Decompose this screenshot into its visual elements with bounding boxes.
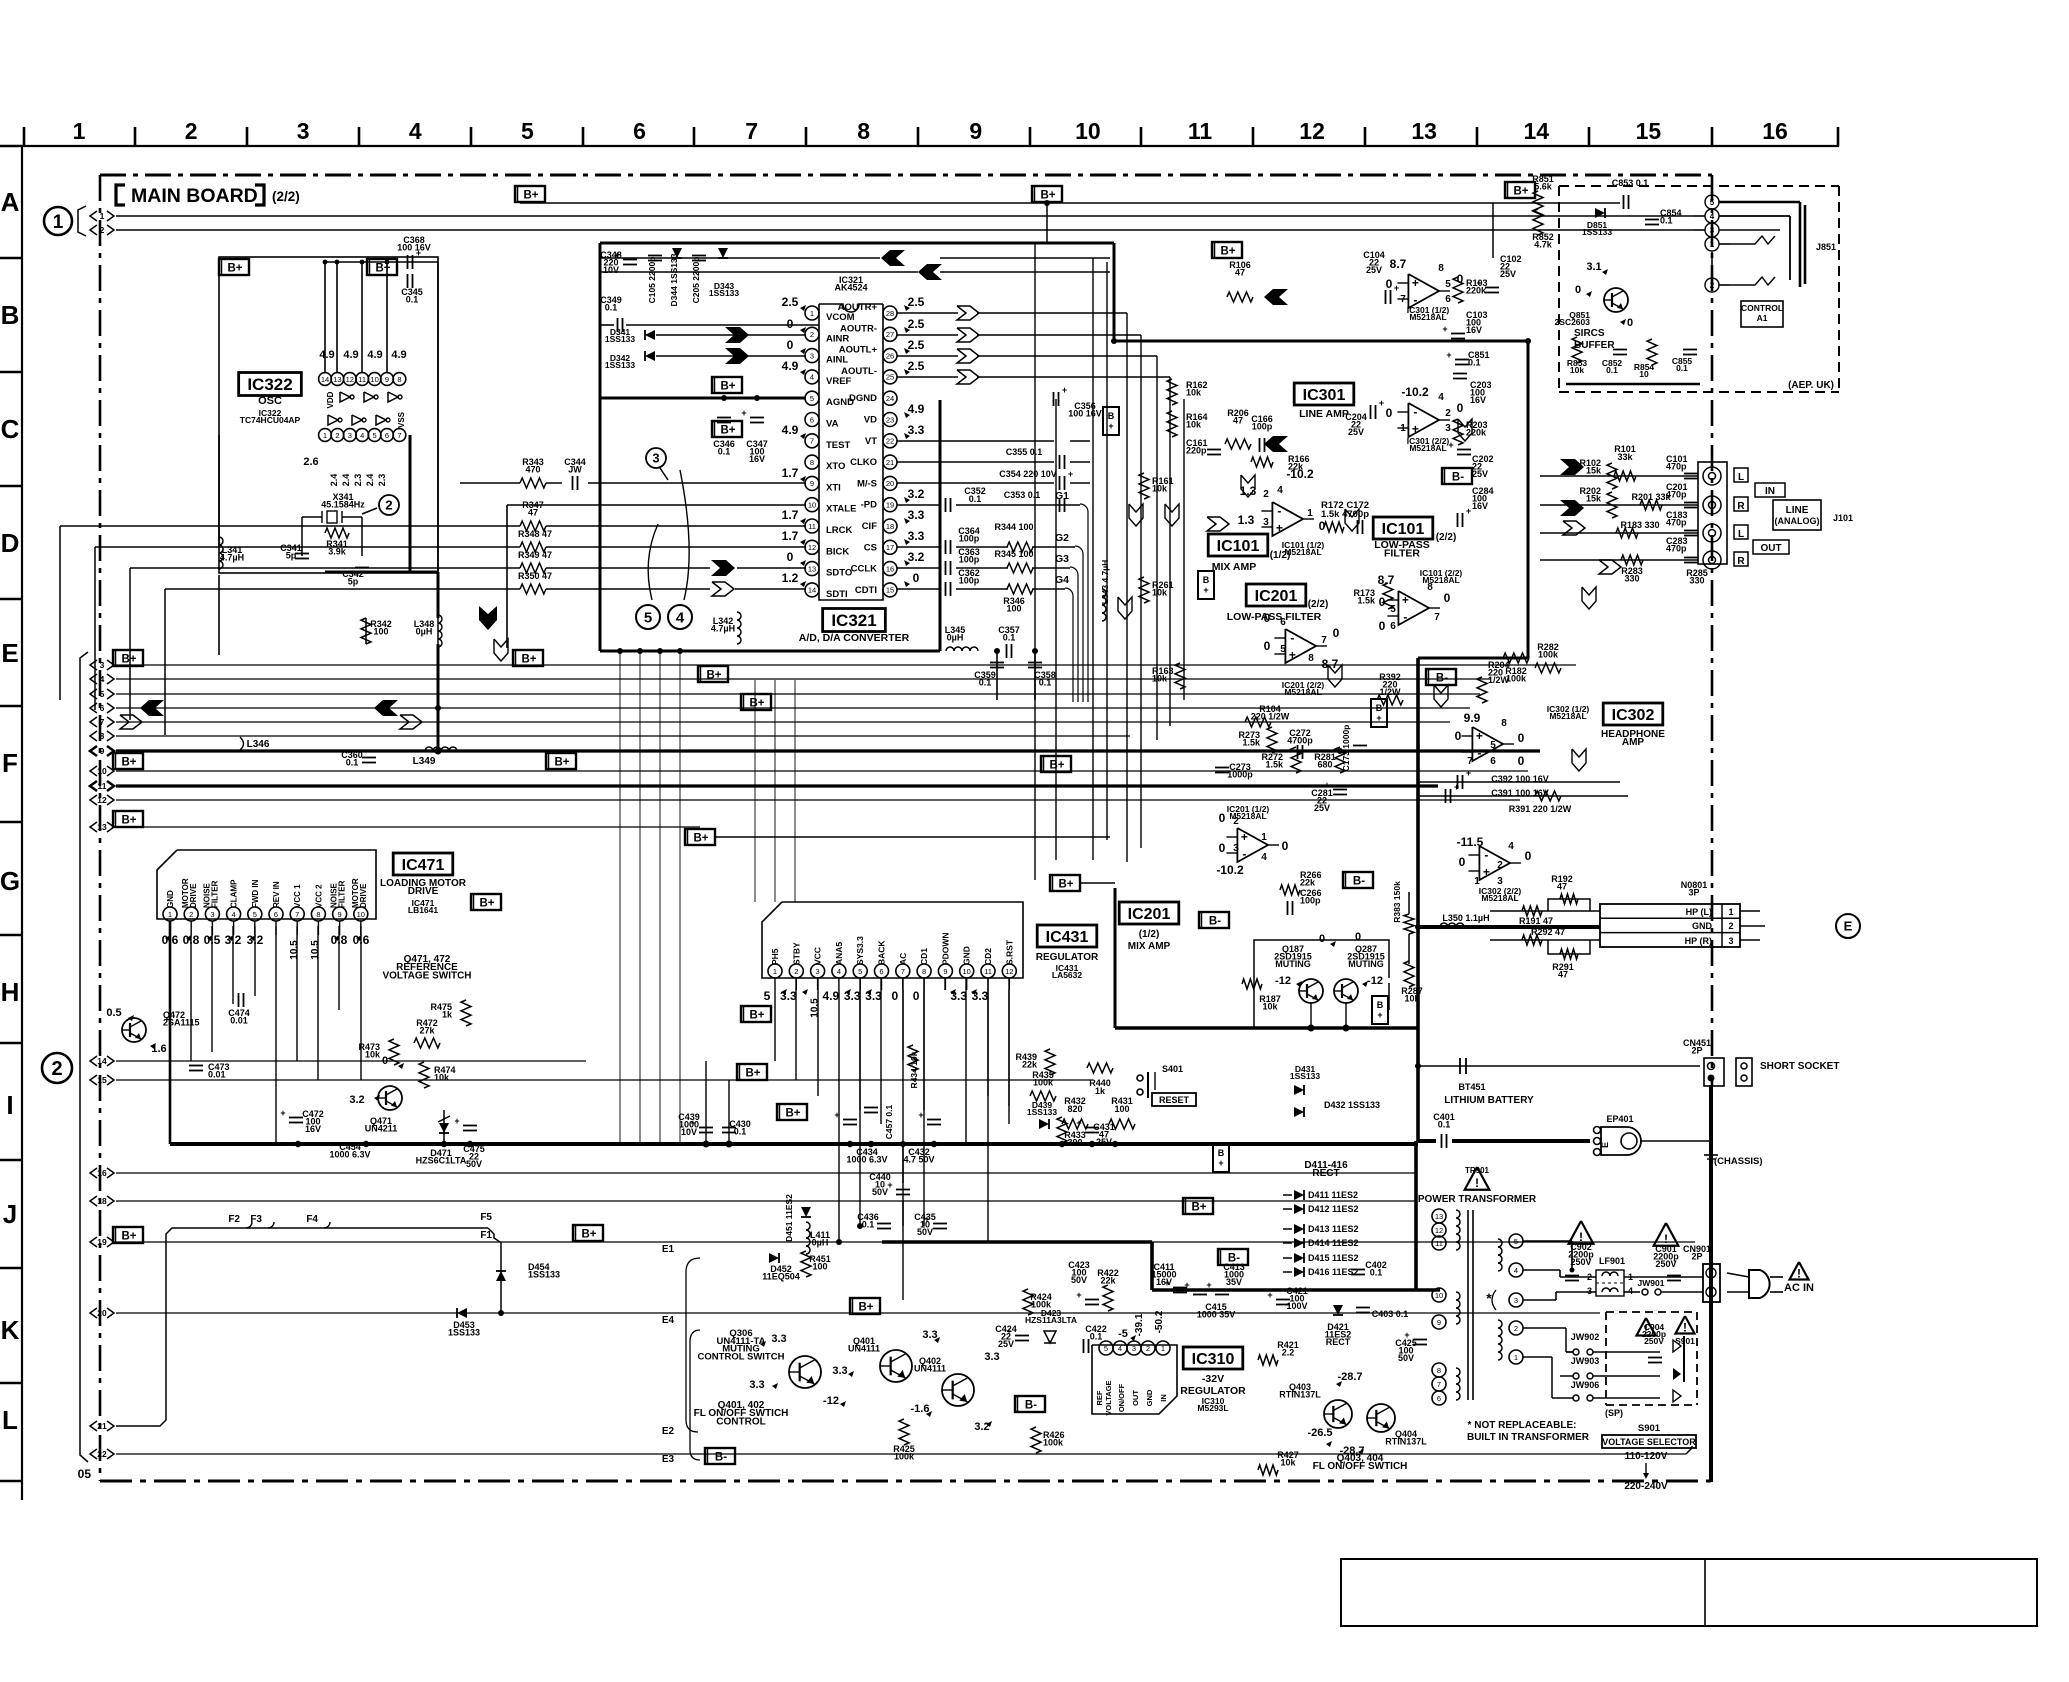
svg-text:0: 0 — [382, 1055, 388, 1067]
svg-text:F1: F1 — [480, 1230, 492, 1241]
svg-text:F5: F5 — [480, 1212, 492, 1223]
svg-text:1: 1 — [323, 431, 327, 440]
svg-text:1.7: 1.7 — [782, 508, 799, 522]
svg-text:3.3: 3.3 — [844, 989, 861, 1003]
svg-text:JW902: JW902 — [1571, 1332, 1600, 1342]
svg-text:MUTING: MUTING — [1348, 959, 1384, 969]
svg-text:6: 6 — [274, 910, 278, 919]
svg-text:B+: B+ — [479, 898, 494, 910]
svg-text:B-: B- — [1436, 673, 1448, 685]
svg-text:100p: 100p — [1252, 421, 1273, 431]
svg-text:E3: E3 — [662, 1454, 675, 1465]
svg-text:5: 5 — [764, 989, 771, 1003]
svg-text:B+: B+ — [521, 654, 536, 666]
svg-text:13: 13 — [808, 564, 816, 573]
svg-text:5: 5 — [810, 394, 814, 403]
svg-text:16V: 16V — [749, 454, 765, 464]
svg-text:10: 10 — [808, 501, 816, 510]
svg-text:IC310: IC310 — [1192, 1351, 1235, 1368]
svg-text:9: 9 — [943, 967, 947, 976]
svg-text:680: 680 — [1317, 759, 1332, 769]
svg-text:3: 3 — [1587, 1286, 1592, 1296]
svg-text:GND: GND — [166, 890, 175, 908]
svg-text:B: B — [1203, 575, 1210, 585]
svg-text:+: + — [1006, 1326, 1011, 1336]
svg-text:0: 0 — [787, 550, 794, 564]
svg-text:4: 4 — [100, 674, 105, 684]
svg-text:3.3: 3.3 — [771, 1333, 786, 1345]
svg-text:B+: B+ — [1058, 879, 1073, 891]
svg-text:6: 6 — [633, 118, 646, 144]
svg-text:C403 0.1: C403 0.1 — [1372, 1309, 1409, 1319]
svg-text:4.9: 4.9 — [908, 402, 925, 416]
svg-text:+: + — [918, 1110, 923, 1120]
svg-text:1.5k: 1.5k — [1265, 759, 1284, 769]
svg-text:1: 1 — [1728, 907, 1733, 917]
svg-text:2.4: 2.4 — [341, 474, 351, 487]
svg-text:10V: 10V — [681, 1127, 697, 1137]
svg-text:6: 6 — [1445, 294, 1451, 305]
svg-text:IC322: IC322 — [247, 375, 292, 394]
svg-text:4: 4 — [1277, 485, 1283, 496]
svg-text:0µH: 0µH — [416, 626, 433, 636]
svg-text:CCLK: CCLK — [851, 564, 878, 575]
svg-text:2: 2 — [189, 910, 193, 919]
svg-text:13: 13 — [333, 375, 341, 384]
svg-text:GND: GND — [1692, 921, 1713, 931]
svg-text:19: 19 — [886, 501, 894, 510]
svg-text:6: 6 — [100, 703, 105, 713]
svg-text:5: 5 — [1280, 644, 1286, 655]
svg-text:JW903: JW903 — [1571, 1356, 1600, 1366]
svg-text:(SP): (SP) — [1605, 1408, 1623, 1418]
svg-text:+: + — [1108, 421, 1113, 431]
svg-text:10: 10 — [1435, 1291, 1443, 1300]
svg-text:B-: B- — [1209, 916, 1221, 928]
svg-text:1: 1 — [1710, 240, 1715, 249]
svg-text:100: 100 — [1114, 1104, 1129, 1114]
svg-text:MIX AMP: MIX AMP — [1128, 941, 1171, 952]
svg-text:AINR: AINR — [826, 333, 849, 344]
svg-text:100k: 100k — [894, 1451, 915, 1461]
svg-text:15: 15 — [1636, 118, 1662, 144]
svg-text:+: + — [1068, 469, 1073, 479]
svg-text:B+: B+ — [706, 670, 721, 682]
svg-text:FL ON/OFF SWTICH: FL ON/OFF SWTICH — [1313, 1461, 1408, 1472]
svg-text:B+: B+ — [581, 1229, 596, 1241]
svg-text:L349: L349 — [413, 756, 436, 767]
svg-text:E: E — [1600, 1142, 1610, 1148]
svg-text:A/D, D/A CONVERTER: A/D, D/A CONVERTER — [799, 632, 910, 644]
svg-text:D416 11ES2: D416 11ES2 — [1308, 1267, 1359, 1277]
svg-text:0: 0 — [1518, 731, 1525, 745]
svg-text:5: 5 — [1710, 198, 1715, 207]
svg-text:250V: 250V — [1655, 1259, 1676, 1269]
svg-text:4.9: 4.9 — [782, 359, 799, 373]
svg-text:1: 1 — [1261, 832, 1267, 843]
svg-text:R350 47: R350 47 — [518, 571, 552, 581]
svg-text:9: 9 — [810, 479, 814, 488]
svg-text:CONTROL SWITCH: CONTROL SWITCH — [698, 1351, 785, 1362]
svg-text:100: 100 — [812, 1261, 827, 1271]
svg-text:+: + — [887, 1180, 892, 1190]
svg-text:4.9: 4.9 — [391, 349, 406, 361]
svg-text:VA: VA — [826, 419, 839, 430]
svg-text:XTO: XTO — [826, 461, 845, 472]
svg-text:-: - — [1403, 610, 1407, 624]
svg-text:4.9: 4.9 — [782, 423, 799, 437]
svg-text:12: 12 — [808, 543, 816, 552]
svg-text:M5218AL: M5218AL — [1409, 443, 1446, 453]
svg-text:1: 1 — [810, 309, 814, 318]
svg-text:BT451: BT451 — [1458, 1082, 1485, 1092]
svg-text:2.5: 2.5 — [782, 295, 799, 309]
svg-text:1SS133: 1SS133 — [1027, 1107, 1058, 1117]
svg-text:9.9: 9.9 — [1464, 711, 1481, 725]
svg-text:10k: 10k — [1186, 419, 1202, 429]
svg-text:8.7: 8.7 — [1322, 657, 1339, 671]
svg-text:1SS133: 1SS133 — [605, 334, 636, 344]
svg-text:100 16V: 100 16V — [1068, 408, 1102, 418]
svg-text:+: + — [1448, 440, 1453, 450]
svg-text:0.01: 0.01 — [208, 1069, 226, 1079]
svg-text:-5: -5 — [1118, 1328, 1128, 1340]
svg-text:+: + — [280, 1108, 285, 1118]
svg-text:2: 2 — [1710, 281, 1715, 290]
svg-text:1.2: 1.2 — [782, 571, 799, 585]
svg-text:LINE: LINE — [1786, 505, 1809, 516]
svg-text:5: 5 — [1445, 279, 1451, 290]
svg-text:-12: -12 — [1275, 975, 1291, 987]
svg-text:11: 11 — [808, 522, 816, 531]
svg-text:25V: 25V — [1366, 265, 1382, 275]
svg-text:VREF: VREF — [826, 376, 852, 387]
svg-text:25V: 25V — [1500, 269, 1516, 279]
svg-text:10k: 10k — [1152, 587, 1168, 597]
svg-text:0.1: 0.1 — [346, 757, 359, 767]
svg-text:0: 0 — [1282, 839, 1289, 853]
svg-text:5: 5 — [1104, 1344, 1108, 1353]
svg-text:-32V: -32V — [1202, 1373, 1224, 1385]
svg-text:R391 220 1/2W: R391 220 1/2W — [1509, 804, 1572, 814]
svg-text:OSC: OSC — [258, 395, 282, 407]
svg-text:12: 12 — [1005, 967, 1013, 976]
svg-text:IC101: IC101 — [1217, 538, 1260, 555]
svg-text:3.3: 3.3 — [865, 989, 882, 1003]
svg-text:2: 2 — [51, 1058, 62, 1080]
svg-text:10k: 10k — [365, 1049, 381, 1059]
svg-text:AINL: AINL — [826, 355, 848, 366]
svg-text:20: 20 — [97, 1308, 107, 1318]
svg-text:!: ! — [1683, 1321, 1687, 1335]
svg-text:C457 0.1: C457 0.1 — [884, 1104, 894, 1139]
svg-text:-26.5: -26.5 — [1307, 1427, 1332, 1439]
svg-text:330: 330 — [1689, 575, 1704, 585]
svg-text:22k: 22k — [1288, 461, 1304, 471]
svg-text:FWD IN: FWD IN — [251, 879, 260, 908]
svg-text:M5218AL: M5218AL — [1409, 312, 1446, 322]
svg-text:0: 0 — [1518, 754, 1525, 768]
svg-text:10k: 10k — [1262, 1001, 1278, 1011]
svg-text:6: 6 — [879, 967, 883, 976]
svg-text:6: 6 — [1390, 621, 1396, 632]
svg-text:0: 0 — [1355, 931, 1361, 943]
svg-text:C354 220 10V: C354 220 10V — [999, 469, 1057, 479]
svg-text:G: G — [0, 866, 20, 896]
svg-text:2: 2 — [1146, 1344, 1150, 1353]
svg-text:22k: 22k — [1022, 1059, 1038, 1069]
svg-text:100p: 100p — [1300, 895, 1321, 905]
svg-text:B+: B+ — [720, 425, 735, 437]
svg-text:HZS6C1LTA: HZS6C1LTA — [416, 1155, 467, 1165]
svg-text:+: + — [1376, 713, 1381, 723]
svg-text:0.1: 0.1 — [718, 446, 731, 456]
svg-text:8: 8 — [100, 731, 105, 741]
svg-text:10.5: 10.5 — [289, 940, 300, 960]
svg-text:VCC: VCC — [813, 947, 823, 965]
svg-text:-: - — [1413, 405, 1417, 419]
svg-text:(AEP. UK): (AEP. UK) — [1788, 380, 1834, 391]
svg-text:+: + — [1483, 865, 1490, 879]
svg-text:820: 820 — [1067, 1104, 1082, 1114]
svg-text:4.7 50V: 4.7 50V — [903, 1154, 934, 1164]
svg-text:22k: 22k — [1300, 877, 1316, 887]
svg-text:220-240V: 220-240V — [1624, 1481, 1668, 1492]
svg-text:3: 3 — [652, 451, 659, 466]
svg-text:2: 2 — [794, 967, 798, 976]
svg-text:DRIVE: DRIVE — [408, 886, 439, 897]
svg-text:1: 1 — [1161, 1344, 1165, 1353]
svg-text:15k: 15k — [1586, 465, 1602, 475]
svg-text:B+: B+ — [745, 1068, 760, 1080]
svg-text:2: 2 — [1445, 408, 1451, 419]
svg-text:CD1: CD1 — [919, 948, 929, 965]
svg-text:B-: B- — [1353, 876, 1365, 888]
svg-text:8: 8 — [397, 375, 401, 384]
svg-text:3: 3 — [810, 351, 814, 360]
svg-text:AC: AC — [898, 953, 908, 965]
svg-text:+: + — [1446, 350, 1451, 360]
svg-text:5: 5 — [644, 609, 652, 626]
svg-text:E: E — [1, 638, 18, 668]
svg-text:9: 9 — [969, 118, 982, 144]
svg-text:16: 16 — [97, 1168, 107, 1178]
svg-text:LINE AMP: LINE AMP — [1299, 408, 1349, 420]
svg-text:IC101: IC101 — [1382, 521, 1425, 538]
svg-text:100k: 100k — [1506, 673, 1527, 683]
svg-text:1.5k: 1.5k — [1357, 595, 1376, 605]
svg-text:100V: 100V — [1286, 1301, 1307, 1311]
svg-text:4.9: 4.9 — [319, 349, 334, 361]
svg-text:2.4: 2.4 — [329, 474, 339, 487]
svg-text:5: 5 — [373, 431, 377, 440]
svg-text:7: 7 — [1467, 756, 1473, 767]
svg-text:!: ! — [1797, 1267, 1801, 1281]
svg-text:E1: E1 — [662, 1244, 675, 1255]
svg-text:8: 8 — [922, 967, 926, 976]
svg-text:13: 13 — [1435, 1212, 1443, 1221]
svg-text:DRIVE: DRIVE — [189, 883, 198, 908]
svg-text:10k: 10k — [434, 1072, 450, 1082]
svg-text:CD2: CD2 — [983, 948, 993, 965]
svg-text:14: 14 — [1524, 118, 1550, 144]
svg-text:4: 4 — [1438, 392, 1444, 403]
svg-text:100p: 100p — [959, 533, 980, 543]
svg-text:CLKO: CLKO — [850, 457, 877, 468]
svg-text:-: - — [1484, 848, 1488, 862]
svg-text:REF: REF — [1095, 1390, 1104, 1405]
svg-text:-11.5: -11.5 — [1457, 835, 1484, 849]
svg-text:1: 1 — [100, 211, 105, 221]
svg-text:4.7k: 4.7k — [1534, 239, 1553, 249]
svg-text:VOLTAGE SWITCH: VOLTAGE SWITCH — [382, 970, 471, 981]
svg-text:FILTER: FILTER — [210, 880, 219, 908]
svg-text:4.9: 4.9 — [343, 349, 358, 361]
svg-text:4: 4 — [810, 373, 814, 382]
svg-text:3.3: 3.3 — [832, 1365, 847, 1377]
svg-text:10.5: 10.5 — [310, 940, 321, 960]
svg-text:2P: 2P — [1691, 1251, 1702, 1261]
svg-text:100p: 100p — [959, 575, 980, 585]
svg-text:12: 12 — [1299, 118, 1325, 144]
svg-text:-PD: -PD — [861, 500, 878, 511]
svg-text:15: 15 — [886, 586, 894, 595]
svg-text:0: 0 — [1379, 619, 1386, 633]
svg-text:+: + — [1062, 385, 1067, 395]
svg-text:IC431: IC431 — [1046, 929, 1089, 946]
svg-text:SDTI: SDTI — [826, 589, 848, 600]
svg-text:10k: 10k — [1570, 365, 1584, 375]
svg-text:1/2W: 1/2W — [1488, 675, 1510, 685]
svg-text:2SA1115: 2SA1115 — [163, 1017, 200, 1027]
svg-text:+: + — [454, 1116, 459, 1126]
svg-text:MIX AMP: MIX AMP — [1212, 561, 1257, 573]
svg-text:AOUTR+: AOUTR+ — [838, 302, 878, 313]
svg-text:0.1: 0.1 — [1039, 677, 1052, 687]
svg-text:UN4111: UN4111 — [914, 1363, 946, 1373]
svg-text:B+: B+ — [121, 815, 136, 827]
svg-text:10: 10 — [1639, 369, 1649, 379]
svg-text:+: + — [690, 1118, 695, 1128]
svg-text:CONTROL: CONTROL — [1741, 303, 1783, 313]
svg-text:25V: 25V — [1472, 469, 1488, 479]
svg-text:4: 4 — [409, 118, 422, 144]
svg-text:470p: 470p — [1666, 461, 1687, 471]
svg-text:0: 0 — [913, 571, 920, 585]
svg-text:2: 2 — [1233, 816, 1239, 827]
svg-text:B+: B+ — [1049, 760, 1064, 772]
svg-text:I: I — [6, 1090, 13, 1120]
svg-text:26: 26 — [886, 351, 894, 360]
svg-text:3P: 3P — [1688, 887, 1699, 897]
svg-text:C105 2200p: C105 2200p — [647, 257, 657, 304]
svg-text:1k: 1k — [1095, 1086, 1106, 1096]
svg-text:+: + — [1466, 506, 1471, 516]
svg-text:ANA5: ANA5 — [834, 942, 844, 965]
svg-text:5: 5 — [521, 118, 534, 144]
svg-text:27: 27 — [886, 330, 894, 339]
svg-text:11EQ504: 11EQ504 — [762, 1271, 800, 1281]
svg-text:18: 18 — [886, 522, 894, 531]
svg-text:+: + — [1203, 585, 1208, 595]
svg-text:22k: 22k — [1100, 1275, 1116, 1285]
svg-text:1.7: 1.7 — [782, 466, 799, 480]
svg-text:16: 16 — [886, 564, 894, 573]
svg-text:BACK: BACK — [877, 940, 887, 965]
svg-text:D451 11ES2: D451 11ES2 — [784, 1194, 794, 1242]
svg-text:10k: 10k — [1280, 1457, 1296, 1467]
svg-text:-12: -12 — [1367, 975, 1383, 987]
svg-text:AMP: AMP — [1622, 737, 1645, 748]
svg-text:R383 150k: R383 150k — [1392, 881, 1402, 923]
svg-text:100k: 100k — [1538, 649, 1559, 659]
svg-text:3.2: 3.2 — [349, 1094, 364, 1106]
svg-text:E2: E2 — [662, 1426, 675, 1437]
svg-text:SHORT SOCKET: SHORT SOCKET — [1760, 1061, 1839, 1072]
svg-text:J101: J101 — [1833, 513, 1853, 523]
svg-text:BUFFER: BUFFER — [1574, 340, 1615, 351]
svg-text:21: 21 — [886, 458, 894, 467]
svg-text:C205 2200p: C205 2200p — [691, 257, 701, 304]
svg-text:250V: 250V — [1644, 1336, 1664, 1346]
svg-text:1: 1 — [1514, 1353, 1518, 1362]
svg-text:M/-S: M/-S — [857, 478, 877, 489]
svg-text:D411 11ES2: D411 11ES2 — [1308, 1190, 1358, 1200]
svg-text:(1/2): (1/2) — [1139, 929, 1160, 940]
svg-text:5p: 5p — [348, 576, 359, 586]
svg-text:8: 8 — [1437, 1366, 1441, 1375]
svg-text:D415 11ES2: D415 11ES2 — [1308, 1253, 1359, 1263]
svg-text:1000 6.3V: 1000 6.3V — [329, 1149, 370, 1159]
svg-text:LA5632: LA5632 — [1052, 970, 1083, 980]
svg-text:M5218AL: M5218AL — [1549, 711, 1586, 721]
svg-text:+: + — [1442, 324, 1447, 334]
svg-text:3.9k: 3.9k — [328, 546, 347, 556]
svg-text:0: 0 — [1455, 729, 1462, 743]
svg-text:B+: B+ — [785, 1108, 800, 1120]
svg-text:AOUTL+: AOUTL+ — [839, 345, 878, 356]
svg-text:2.5: 2.5 — [908, 359, 925, 373]
svg-text:2.6: 2.6 — [303, 456, 318, 468]
svg-text:3.3: 3.3 — [908, 529, 925, 543]
svg-text:16: 16 — [1762, 118, 1788, 144]
svg-text:7: 7 — [1321, 635, 1327, 646]
svg-text:D414 11ES2: D414 11ES2 — [1308, 1238, 1359, 1248]
svg-text:F4: F4 — [306, 1214, 318, 1225]
svg-text:100k: 100k — [1043, 1437, 1064, 1447]
svg-text:+: + — [1402, 593, 1409, 607]
svg-text:4.9: 4.9 — [823, 989, 840, 1003]
svg-text:OUT: OUT — [1131, 1390, 1140, 1406]
svg-text:25V: 25V — [1096, 1137, 1112, 1147]
svg-text:0.01: 0.01 — [230, 1015, 248, 1025]
svg-text:47: 47 — [1557, 881, 1567, 891]
svg-text:0: 0 — [1457, 401, 1464, 415]
svg-text:VD: VD — [864, 415, 877, 426]
svg-text:G4: G4 — [1055, 574, 1069, 586]
svg-text:IC302: IC302 — [1612, 707, 1655, 724]
svg-text:D432 1SS133: D432 1SS133 — [1324, 1100, 1380, 1110]
svg-text:9: 9 — [385, 375, 389, 384]
svg-text:IC471: IC471 — [402, 857, 445, 874]
svg-text:1/2W: 1/2W — [1379, 687, 1401, 697]
svg-text:0: 0 — [787, 317, 794, 331]
svg-text:3.2: 3.2 — [908, 487, 925, 501]
svg-text:10: 10 — [963, 967, 971, 976]
svg-text:1000 35V: 1000 35V — [1197, 1309, 1236, 1319]
svg-text:18: 18 — [97, 1196, 107, 1206]
svg-text:CS: CS — [864, 542, 877, 553]
